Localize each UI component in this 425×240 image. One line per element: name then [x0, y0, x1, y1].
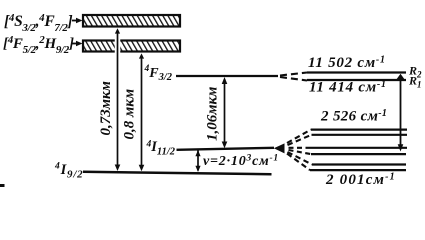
label 11 414 cm-1 [309, 79, 387, 96]
laser arrow 1.06um (double headed vertical) [222, 77, 228, 148]
svg-text:11 502 см-1: 11 502 см-1 [308, 55, 386, 72]
label nu=2*10^3 cm-1 [203, 154, 279, 170]
bottom-left corner mark [0, 184, 5, 187]
label [4F5/2,2H9/2] [3, 34, 74, 56]
label 2 001 cm-1 [325, 172, 396, 189]
pointer arrow from label 2 to bar 2 [72, 41, 83, 46]
label 4I11/2 [146, 139, 176, 157]
sublevel 2 of 4I11/2 [312, 134, 408, 136]
label 4F3/2 [144, 64, 173, 83]
svg-text:0,8 мкм: 0,8 мкм [122, 89, 138, 140]
level 4F3/2 line [176, 75, 278, 77]
label 11 502 cm-1 [308, 55, 386, 72]
sublevel 4 of 4I11/2 [311, 153, 406, 155]
label 2 526 cm-1 [320, 108, 387, 125]
sublevel 1 of 4I11/2 [311, 129, 407, 131]
fan dash to sublevel 1 [287, 130, 311, 143]
dashed split to R1 [280, 77, 307, 81]
level R1 line [307, 79, 406, 81]
sublevel 6 of 4I11/2 [310, 169, 406, 171]
level 4I11/2 line [177, 148, 275, 150]
pointer arrow from label 1 to bar 1 [72, 18, 83, 23]
fan dash to sublevel 6 [287, 154, 310, 171]
pump band bar 1 [4S3/2,4F7/2] [83, 15, 180, 27]
svg-text:0,73мкм: 0,73мкм [98, 81, 114, 135]
svg-text:11 414 см-1: 11 414 см-1 [309, 79, 387, 96]
pump arrow 0.73um (double headed vertical) [115, 28, 121, 171]
pump band bar 2 [4F5/2,2H9/2] [83, 41, 180, 52]
level R2 line [307, 71, 406, 73]
energy gap arrow nu=2e3 cm-1 (double headed vertical) [195, 150, 200, 172]
sublevel 5 of 4I11/2 [312, 163, 406, 165]
label 0,8 mkm (rotated) [122, 89, 138, 140]
fan convergence triangle [274, 143, 285, 153]
ground level 4I9/2 line [83, 172, 272, 174]
fan dash to sublevel 2 [288, 135, 312, 145]
fan dash to sublevel 4 [289, 150, 312, 154]
label 0,73mkm (rotated) [98, 81, 114, 135]
laser transition arrow R1 to Y3 (double headed vertical) [397, 74, 405, 152]
pump arrow 0.8um (double headed vertical) [139, 53, 145, 171]
dashed split to R2 [280, 73, 307, 76]
label [4S3/2,4F7/2] [4, 12, 73, 34]
fan dash to sublevel 5 [288, 152, 313, 165]
label 1,06mkm (rotated) [205, 87, 221, 141]
label 4I9/2 [54, 162, 83, 181]
svg-text:1,06мкм: 1,06мкм [205, 87, 221, 141]
fan dash to sublevel 3 [289, 147, 310, 149]
svg-text:2 526 см-1: 2 526 см-1 [320, 108, 387, 125]
label R1 [408, 74, 422, 90]
svg-text:ν=2·103см-1: ν=2·103см-1 [203, 154, 279, 170]
sublevel 3 of 4I11/2 [310, 147, 408, 149]
label R2 [408, 64, 422, 80]
